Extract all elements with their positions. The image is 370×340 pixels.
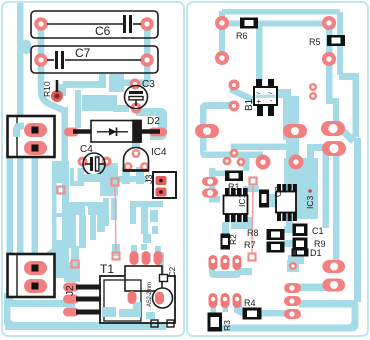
svg-text:C7: C7 [75,46,91,60]
svg-text:IC4: IC4 [151,147,167,158]
svg-text:R8: R8 [247,228,259,238]
svg-text:C1: C1 [312,226,324,236]
svg-text:C2: C2 [273,186,283,197]
svg-text:B1: B1 [244,98,255,111]
svg-text:C4: C4 [80,144,93,155]
svg-text:R3: R3 [222,320,232,331]
svg-text:AS2-2mm: AS2-2mm [147,282,153,307]
svg-text:D1: D1 [310,248,322,258]
svg-text:R1: R1 [228,182,240,192]
svg-text:T1: T1 [100,262,114,276]
svg-text:R4: R4 [244,298,256,308]
svg-text:R7: R7 [244,240,256,250]
svg-text:IC1: IC1 [237,194,247,208]
svg-text:D2: D2 [147,116,160,127]
svg-text:J3: J3 [144,174,154,184]
svg-text:R6: R6 [236,31,248,41]
svg-text:C6: C6 [95,24,111,38]
svg-text:+: + [257,97,262,106]
svg-text:C3: C3 [142,79,155,90]
svg-text:R10: R10 [42,81,52,97]
svg-text:-: - [270,96,273,105]
svg-text:R5: R5 [309,37,321,47]
svg-text:C2: C2 [168,266,177,277]
svg-text:R2: R2 [228,234,238,245]
svg-text:IC3: IC3 [305,196,315,210]
svg-text:J2: J2 [65,285,76,296]
